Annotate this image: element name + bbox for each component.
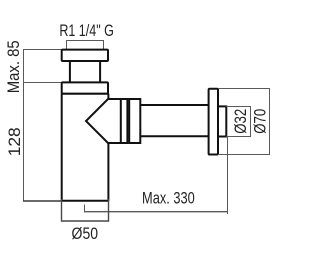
svg-text:Ø32: Ø32: [231, 109, 250, 134]
outlet nut band 2: [129, 99, 140, 143]
svg-text:128: 128: [5, 127, 24, 156]
outlet cone wedge: [86, 99, 121, 143]
svg-text:R1 1/4" G: R1 1/4" G: [59, 21, 114, 40]
dimension Max. 85 vertical line: [23, 50, 62, 202]
dimension Max. 330: [85, 137, 228, 215]
dimension line: [85, 211, 228, 213]
svg-text:Ø50: Ø50: [72, 224, 99, 243]
extension line top (y=49.5): [23, 49, 62, 51]
dimension Ø50 bracket: [62, 199, 109, 221]
siphon body: [62, 94, 109, 201]
dimension Ø70 bracket: [218, 89, 270, 155]
top nut flange: [62, 82, 108, 93]
svg-text:Max. 85: Max. 85: [4, 40, 23, 93]
inlet neck: [70, 61, 100, 82]
extension line bottom (y=201): [23, 200, 62, 202]
left tick: [84, 205, 86, 213]
extension line mid (y=82.5): [23, 82, 62, 84]
extension line from stub down: [227, 137, 229, 215]
horizontal outlet pipe: [140, 105, 208, 136]
dimension Ø32 bracket: [226, 107, 250, 137]
svg-text:Ø70: Ø70: [250, 109, 269, 134]
wall flange rosette: [209, 89, 218, 155]
svg-text:Max. 330: Max. 330: [142, 188, 195, 207]
outlet nut band 1: [121, 99, 128, 143]
dimension line R1 1/4" G: [67, 41, 104, 51]
top inlet flange: [62, 50, 108, 61]
pipe stub behind flange: [218, 106, 226, 136]
